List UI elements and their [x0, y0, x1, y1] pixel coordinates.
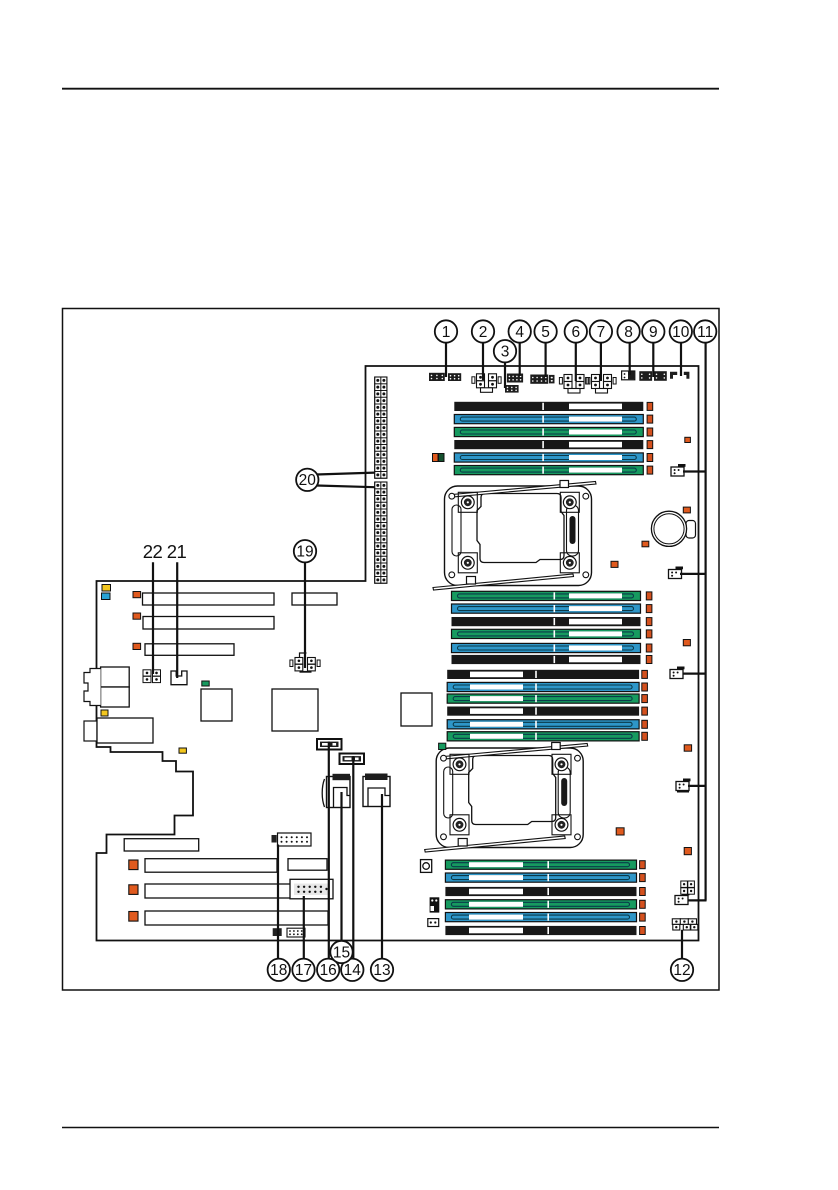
svg-text:3: 3 — [501, 344, 510, 361]
svg-text:11: 11 — [697, 324, 713, 341]
svg-text:1: 1 — [442, 324, 451, 341]
svg-text:22: 22 — [143, 541, 163, 562]
svg-text:9: 9 — [649, 324, 658, 341]
svg-text:2: 2 — [479, 324, 488, 341]
svg-text:13: 13 — [373, 962, 390, 979]
svg-text:20: 20 — [299, 472, 317, 489]
svg-text:17: 17 — [295, 962, 312, 979]
svg-text:21: 21 — [167, 541, 187, 562]
svg-text:16: 16 — [320, 962, 337, 979]
svg-text:5: 5 — [541, 324, 550, 341]
svg-text:12: 12 — [673, 962, 690, 979]
svg-text:8: 8 — [624, 324, 633, 341]
svg-text:19: 19 — [296, 544, 313, 561]
svg-text:7: 7 — [597, 324, 606, 341]
svg-text:18: 18 — [270, 962, 287, 979]
svg-text:6: 6 — [571, 324, 580, 341]
svg-text:15: 15 — [333, 944, 350, 961]
svg-text:14: 14 — [344, 962, 362, 979]
svg-text:10: 10 — [672, 324, 690, 341]
svg-text:4: 4 — [515, 324, 524, 341]
